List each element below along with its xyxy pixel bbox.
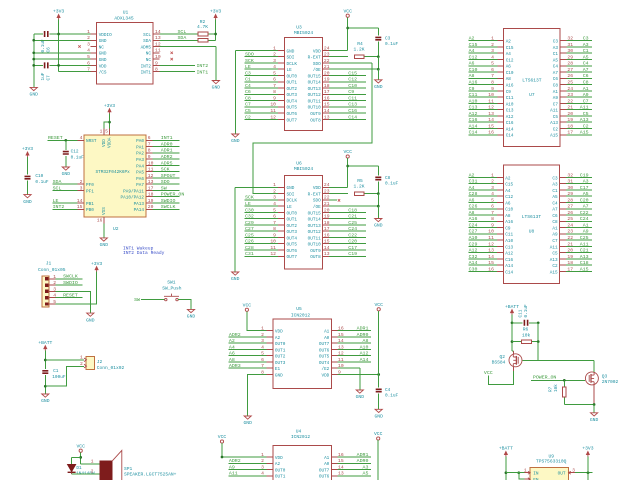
power +3V3 R2 xyxy=(215,17,217,20)
wire xyxy=(338,469,371,471)
svg-text:VCC: VCC xyxy=(76,443,85,449)
svg-text:SW_Push: SW_Push xyxy=(162,285,182,291)
pin 22 xyxy=(323,62,329,64)
wire xyxy=(468,189,497,191)
svg-text:OUT4: OUT4 xyxy=(287,236,298,241)
svg-text:OUT6: OUT6 xyxy=(287,112,298,117)
pin 23 xyxy=(560,96,566,98)
wire xyxy=(329,255,366,257)
junction xyxy=(517,471,520,474)
wire xyxy=(245,205,279,207)
svg-text:4.7K: 4.7K xyxy=(197,24,208,30)
svg-text:10: 10 xyxy=(155,54,161,60)
svg-text:PB0: PB0 xyxy=(86,208,94,213)
svg-text:VCC: VCC xyxy=(343,149,352,155)
svg-text:SCL: SCL xyxy=(143,33,151,38)
wire EN tie xyxy=(519,473,525,480)
svg-text:2N7002: 2N7002 xyxy=(602,379,619,385)
pin 8 xyxy=(278,93,284,95)
pin 5 xyxy=(497,201,503,203)
svg-text:A14: A14 xyxy=(360,357,369,363)
junction xyxy=(537,340,540,343)
junction xyxy=(57,64,60,67)
svg-text:OUT0: OUT0 xyxy=(275,468,286,473)
pin 31 xyxy=(560,183,566,185)
svg-text:NRST: NRST xyxy=(86,139,97,144)
wire xyxy=(329,224,366,226)
accelerometer U1 box xyxy=(97,22,153,84)
svg-text:A6: A6 xyxy=(229,351,235,357)
svg-text:OUT1: OUT1 xyxy=(287,81,298,86)
svg-text:C8: C8 xyxy=(553,83,559,88)
pin 5 xyxy=(267,355,273,357)
svg-text:17: 17 xyxy=(324,226,330,232)
svg-text:A1: A1 xyxy=(324,330,330,335)
wire D1 to spk pin2 xyxy=(72,473,100,475)
svg-text:C27: C27 xyxy=(469,229,478,235)
svg-text:9: 9 xyxy=(155,60,158,66)
wire xyxy=(566,270,592,272)
pin 14 xyxy=(323,112,329,114)
power VCC U3 xyxy=(346,14,349,17)
svg-text:9: 9 xyxy=(148,154,151,160)
wire batt U9 xyxy=(505,457,507,480)
svg-text:STM32F042K6Px: STM32F042K6Px xyxy=(96,170,131,175)
LED matrix U7 box xyxy=(504,28,560,146)
power +3V3 U2 xyxy=(109,111,111,114)
pin 2 xyxy=(90,39,96,41)
wire xyxy=(566,208,592,210)
svg-text:GND: GND xyxy=(590,417,599,423)
wire to C11 xyxy=(512,322,523,324)
wire xyxy=(566,183,592,185)
wire VCC down spk xyxy=(80,452,82,464)
pin 5 xyxy=(278,211,284,213)
pin 22 xyxy=(323,199,329,201)
pin 6 xyxy=(497,71,503,73)
wire VCC down xyxy=(347,17,349,50)
svg-text:C30: C30 xyxy=(245,207,254,213)
wire to D1 xyxy=(72,456,81,458)
svg-text:PA3: PA3 xyxy=(136,158,144,163)
svg-text:OUT5: OUT5 xyxy=(287,243,298,248)
wire xyxy=(566,195,592,197)
svg-text:A6: A6 xyxy=(506,65,512,70)
svg-text:LTS613T: LTS613T xyxy=(522,214,542,220)
junction xyxy=(505,471,508,474)
wire xyxy=(329,81,366,83)
svg-text:A3: A3 xyxy=(553,46,559,51)
capacitor xyxy=(63,152,69,154)
svg-text:SWDIO: SWDIO xyxy=(161,198,176,204)
pin 9 xyxy=(278,100,284,102)
pin 23 xyxy=(323,56,329,58)
svg-text:VCC: VCC xyxy=(374,431,383,437)
svg-text:0.1uF: 0.1uF xyxy=(385,42,399,47)
pin 4 J1 xyxy=(46,296,49,299)
svg-text:U9: U9 xyxy=(548,454,554,460)
pin 2 J2 xyxy=(84,364,87,368)
wire xyxy=(338,348,371,350)
junction xyxy=(346,165,349,168)
no-connect xyxy=(171,52,173,54)
pin 1 xyxy=(90,33,96,35)
svg-text:OUT6: OUT6 xyxy=(287,249,298,254)
svg-text:A8: A8 xyxy=(505,214,511,219)
svg-text:+3V3: +3V3 xyxy=(104,103,115,109)
svg-text:Q3: Q3 xyxy=(602,374,608,380)
svg-text:A9: A9 xyxy=(553,96,559,101)
pin 13 xyxy=(331,475,337,477)
svg-text:A9: A9 xyxy=(583,229,589,235)
svg-text:1uF: 1uF xyxy=(41,72,46,80)
svg-text:ADR2: ADR2 xyxy=(229,332,241,338)
pin 1 xyxy=(278,49,284,51)
wire xyxy=(468,239,497,241)
svg-text:VCC: VCC xyxy=(243,302,252,308)
ground U6 OE xyxy=(375,219,382,222)
pin 11 xyxy=(153,52,159,54)
svg-text:VDD: VDD xyxy=(313,49,321,54)
svg-text:SDA: SDA xyxy=(53,179,62,185)
svg-text:VCC: VCC xyxy=(374,302,383,308)
svg-text:A10: A10 xyxy=(469,98,478,104)
wire J1 pin5 xyxy=(56,272,97,304)
capacitor xyxy=(45,31,48,37)
svg-text:C6: C6 xyxy=(245,89,251,95)
pin S Q2 xyxy=(512,351,514,354)
wire xyxy=(329,74,366,76)
svg-text:VDD: VDD xyxy=(321,373,329,378)
wire VDD U5 xyxy=(338,373,379,375)
svg-text:C3: C3 xyxy=(552,176,558,181)
pin 6 xyxy=(278,218,284,220)
pin 25 xyxy=(560,220,566,222)
wire to VDD pin1 xyxy=(104,122,110,128)
pin 2 xyxy=(497,183,503,185)
svg-text:C8: C8 xyxy=(245,95,251,101)
pin 14 xyxy=(497,258,503,260)
pin 12 xyxy=(497,245,503,247)
svg-text:ADR1: ADR1 xyxy=(357,452,369,458)
wire C6 to pin1 xyxy=(49,33,90,35)
junction xyxy=(32,58,35,61)
junction xyxy=(346,27,349,30)
pin 11 xyxy=(278,249,284,251)
svg-text:LE: LE xyxy=(245,201,251,207)
svg-text:19: 19 xyxy=(324,214,330,220)
wire xyxy=(245,106,279,108)
wire xyxy=(468,77,497,79)
junction xyxy=(563,379,566,382)
wire xyxy=(338,361,371,363)
svg-text:RESET: RESET xyxy=(63,293,78,299)
svg-text:SPEAKER.LGCT7525AN+: SPEAKER.LGCT7525AN+ xyxy=(124,472,177,478)
wire C3 bottom xyxy=(377,42,379,57)
svg-text:23: 23 xyxy=(324,52,330,58)
svg-text:C14: C14 xyxy=(506,134,514,139)
wire xyxy=(468,115,497,117)
svg-text:OUT2: OUT2 xyxy=(275,355,286,360)
svg-text:C15: C15 xyxy=(469,42,478,48)
svg-text:C12: C12 xyxy=(506,58,514,63)
speaker SP1 body xyxy=(100,461,112,480)
svg-text:OUT: OUT xyxy=(558,471,566,476)
pin 28 xyxy=(560,65,566,67)
svg-text:D1: D1 xyxy=(76,466,82,471)
svg-text:A1: A1 xyxy=(583,222,589,228)
svg-text:ADR5: ADR5 xyxy=(161,160,173,166)
svg-text:10k: 10k xyxy=(522,332,531,338)
pin 2 xyxy=(278,193,284,195)
svg-text:C3: C3 xyxy=(245,70,251,76)
ground U1 rail xyxy=(30,87,37,90)
capacitor xyxy=(375,37,381,39)
wire /CS pin7 xyxy=(59,71,91,73)
svg-text:C13: C13 xyxy=(505,245,513,250)
pin 10 xyxy=(497,96,503,98)
svg-text:A3: A3 xyxy=(363,464,369,470)
wire xyxy=(566,90,592,92)
pin 32 xyxy=(560,176,566,178)
junction xyxy=(44,385,47,388)
wire xyxy=(229,367,267,369)
pin 13 xyxy=(497,115,503,117)
svg-text:SWDIO: SWDIO xyxy=(63,280,78,286)
svg-text:A3: A3 xyxy=(583,179,589,185)
pin 15 xyxy=(323,243,329,245)
pin 8 xyxy=(153,71,159,73)
svg-text:INT2: INT2 xyxy=(53,204,65,210)
svg-text:OUT11: OUT11 xyxy=(308,236,321,241)
svg-text:C5: C5 xyxy=(583,111,589,117)
wire C11 down xyxy=(537,323,539,342)
wire xyxy=(245,100,279,102)
svg-text:OUT11: OUT11 xyxy=(308,99,321,104)
pin 10 xyxy=(278,106,284,108)
wire to U9 IN xyxy=(506,472,525,474)
svg-text:/E2: /E2 xyxy=(321,367,329,372)
svg-text:C15: C15 xyxy=(506,46,514,51)
wire VSS to gnd xyxy=(103,223,105,237)
svg-text:A2: A2 xyxy=(275,336,281,341)
pin 1 xyxy=(267,330,273,332)
power VCC U4 right xyxy=(377,437,380,440)
svg-text:2: 2 xyxy=(91,468,94,474)
wire xyxy=(329,243,366,245)
svg-text:GND: GND xyxy=(374,84,383,90)
pin 17 xyxy=(323,93,329,95)
pin 20 xyxy=(560,252,566,254)
svg-text:OUT6: OUT6 xyxy=(319,475,330,480)
wire xyxy=(468,195,497,197)
wire xyxy=(566,233,592,235)
wire xyxy=(566,96,592,98)
wire xyxy=(468,245,497,247)
svg-text:VDDA: VDDA xyxy=(108,137,113,148)
pin 21 xyxy=(560,109,566,111)
svg-text:U7: U7 xyxy=(529,92,535,98)
svg-text:C7: C7 xyxy=(552,239,558,244)
pin 18 xyxy=(560,127,566,129)
pin 15 xyxy=(497,127,503,129)
svg-text:OUT2: OUT2 xyxy=(287,87,298,92)
pin 18 xyxy=(146,196,152,198)
svg-text:OUT1: OUT1 xyxy=(275,475,286,480)
svg-text:C29: C29 xyxy=(469,241,478,247)
svg-text:+3V3: +3V3 xyxy=(91,261,102,267)
pin 27 xyxy=(560,208,566,210)
wire xyxy=(468,201,497,203)
svg-text:C1: C1 xyxy=(583,48,589,54)
svg-text:OUT8: OUT8 xyxy=(310,118,321,123)
wire xyxy=(468,127,497,129)
pin 2 xyxy=(78,183,84,185)
svg-text:C32: C32 xyxy=(469,254,478,260)
svg-text:VDD: VDD xyxy=(275,456,283,461)
svg-text:SCK: SCK xyxy=(161,167,170,173)
power +3V3 J1 xyxy=(96,269,98,272)
pin 2 xyxy=(267,462,273,464)
svg-text:SDO: SDO xyxy=(245,52,254,58)
pin 2 J1 xyxy=(46,284,49,287)
svg-text:Q2: Q2 xyxy=(499,354,505,360)
pin 19 xyxy=(323,81,329,83)
svg-text:PA14: PA14 xyxy=(134,208,145,213)
svg-text:A7: A7 xyxy=(552,208,558,213)
svg-text:C9: C9 xyxy=(348,89,354,95)
svg-text:A8: A8 xyxy=(229,357,235,363)
svg-text:PF1: PF1 xyxy=(86,189,94,194)
svg-text:OUT3: OUT3 xyxy=(275,361,286,366)
pin 10 xyxy=(146,164,152,166)
svg-text:C16: C16 xyxy=(505,258,513,263)
svg-text:C12: C12 xyxy=(469,54,478,60)
svg-text:A4: A4 xyxy=(469,48,475,54)
svg-text:OUT3: OUT3 xyxy=(287,230,298,235)
svg-text:C1: C1 xyxy=(552,189,558,194)
svg-text:GND: GND xyxy=(30,92,39,98)
pin 8 xyxy=(497,220,503,222)
wire Q3 to gnd xyxy=(593,405,595,413)
wire xyxy=(338,336,371,338)
wire SCL xyxy=(159,33,215,35)
power +BATT U9 xyxy=(505,454,507,457)
wire R7 to source xyxy=(564,404,594,406)
wire xyxy=(468,176,497,178)
svg-text:C14: C14 xyxy=(469,130,478,136)
svg-text:8: 8 xyxy=(155,67,158,73)
svg-text:C5: C5 xyxy=(553,115,559,120)
svg-text:A1: A1 xyxy=(553,90,559,95)
svg-text:0.1uF: 0.1uF xyxy=(524,304,529,318)
svg-text:+3V3: +3V3 xyxy=(582,446,593,452)
svg-text:R6: R6 xyxy=(523,327,529,333)
power VCC speaker xyxy=(79,449,82,452)
svg-text:C32: C32 xyxy=(245,214,254,220)
svg-text:A5: A5 xyxy=(583,54,589,60)
ground C10 xyxy=(24,195,31,198)
pin 26 xyxy=(560,77,566,79)
wire xyxy=(52,189,77,191)
svg-text:A12: A12 xyxy=(506,115,514,120)
svg-text:SCK: SCK xyxy=(245,195,254,201)
svg-text:3: 3 xyxy=(80,185,83,191)
LED driver U3 box xyxy=(285,37,323,130)
wire xyxy=(329,106,366,108)
pin 3 xyxy=(278,62,284,64)
svg-text:A10: A10 xyxy=(505,239,513,244)
svg-text:OUT4: OUT4 xyxy=(287,99,298,104)
svg-text:OUT7: OUT7 xyxy=(319,342,330,347)
wire xyxy=(468,46,497,48)
svg-text:GND: GND xyxy=(100,242,109,248)
wire xyxy=(245,93,279,95)
wire SWCLK xyxy=(56,278,83,280)
junction xyxy=(108,121,111,124)
junction xyxy=(79,456,82,459)
wire xyxy=(338,475,371,477)
wire xyxy=(329,236,366,238)
svg-text:ICN2012: ICN2012 xyxy=(291,312,311,318)
pin 6 xyxy=(267,361,273,363)
wire C12 to gnd xyxy=(65,156,67,167)
svg-text:22: 22 xyxy=(324,195,330,201)
svg-text:1: 1 xyxy=(100,129,103,135)
wire xyxy=(338,355,371,357)
svg-text:RESET: RESET xyxy=(48,135,63,141)
svg-text:PB1: PB1 xyxy=(86,202,94,207)
svg-text:C6: C6 xyxy=(552,214,558,219)
svg-text:VCC: VCC xyxy=(343,8,352,14)
svg-text:C28: C28 xyxy=(245,245,254,251)
wire VCC rail xyxy=(378,311,380,375)
pin 30 xyxy=(560,189,566,191)
wire xyxy=(468,233,497,235)
svg-text:C2: C2 xyxy=(245,114,251,120)
junction xyxy=(511,340,514,343)
svg-text:LTS613T: LTS613T xyxy=(522,77,542,83)
pin 19 xyxy=(560,121,566,123)
pin 5 xyxy=(90,58,96,60)
svg-text:C13: C13 xyxy=(469,105,478,111)
wire xyxy=(566,102,592,104)
svg-text:A5: A5 xyxy=(583,191,589,197)
junction xyxy=(587,471,590,474)
svg-text:24: 24 xyxy=(324,182,330,188)
power +3V3 U1 xyxy=(58,17,60,20)
wire xyxy=(229,342,267,344)
junction xyxy=(377,68,380,71)
svg-text:GND: GND xyxy=(99,58,107,63)
wire xyxy=(245,211,279,213)
wire xyxy=(245,81,279,83)
svg-text:C21: C21 xyxy=(580,248,589,254)
svg-text:ADXL345: ADXL345 xyxy=(114,15,134,21)
pin 1 VDD xyxy=(103,129,105,135)
capacitor xyxy=(375,177,381,179)
svg-text:ADR3: ADR3 xyxy=(229,363,241,369)
wire R7 down xyxy=(563,397,565,404)
svg-text:16: 16 xyxy=(97,218,103,224)
svg-text:19: 19 xyxy=(324,77,330,83)
svg-text:A2: A2 xyxy=(275,462,281,467)
pin 1 xyxy=(278,186,284,188)
svg-text:VDD: VDD xyxy=(99,64,107,69)
svg-text:C12: C12 xyxy=(348,77,357,83)
wire SW xyxy=(141,299,164,301)
svg-text:GND: GND xyxy=(231,138,240,144)
